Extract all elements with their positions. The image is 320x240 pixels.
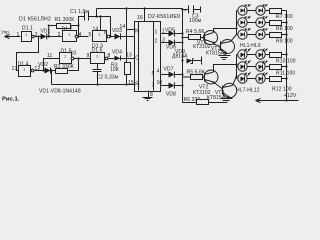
svg-text:100м: 100м — [189, 18, 202, 24]
diode VD6 — [166, 40, 176, 51]
wire D2 pin16 — [144, 9, 146, 22]
resistor R3 — [110, 62, 131, 74]
svg-text:13: 13 — [12, 66, 18, 72]
node rail R3 — [125, 7, 127, 9]
capacitor C1 — [70, 9, 89, 20]
svg-text:C2 0,33м: C2 0,33м — [97, 74, 119, 80]
LED HL11 — [237, 73, 251, 84]
wire — [266, 22, 270, 24]
wire — [175, 74, 183, 76]
svg-text:4: 4 — [157, 69, 160, 75]
inverter D1.4 — [18, 62, 34, 77]
diode VD7 — [164, 67, 175, 78]
diode VD2 — [38, 62, 51, 73]
svg-text:R8 100: R8 100 — [276, 26, 293, 32]
wire — [248, 78, 256, 80]
wire — [248, 22, 256, 24]
LED HL2 — [256, 5, 268, 16]
svg-text:R10 100: R10 100 — [276, 58, 296, 64]
resistor R6 — [183, 97, 225, 105]
node — [95, 15, 97, 17]
inverter D1.3 — [92, 31, 110, 50]
wire output row2 — [161, 42, 169, 44]
wire — [248, 10, 256, 12]
wire — [282, 78, 287, 80]
transistor VT2 — [204, 65, 237, 90]
svg-text:КТ815А: КТ815А — [207, 95, 226, 101]
LED HL12 — [256, 73, 268, 84]
svg-text:10: 10 — [71, 51, 77, 57]
svg-text:C1 1,0м: C1 1,0м — [70, 9, 89, 15]
wire +V vertical bus — [182, 9, 184, 103]
svg-text:15: 15 — [128, 80, 134, 86]
svg-text:Рис.1.: Рис.1. — [2, 96, 20, 102]
transistor VT3 — [221, 35, 237, 56]
ground (VT3 emitter) — [219, 56, 231, 60]
wire — [266, 10, 270, 12]
svg-text:VD4: VD4 — [112, 50, 122, 56]
node — [285, 65, 287, 67]
node — [181, 73, 183, 75]
node B (VD1 cathode / R1 tap) — [48, 35, 50, 37]
svg-text:2: 2 — [155, 39, 158, 45]
resistor R7 — [270, 9, 293, 21]
svg-text:D1.1: D1.1 — [22, 26, 33, 32]
svg-text:Упр.: Упр. — [1, 30, 10, 35]
svg-text:VD8: VD8 — [166, 92, 176, 98]
wire R1 tap vertical — [49, 26, 57, 37]
wire R3 bottom — [126, 75, 128, 85]
resistor R10 — [270, 53, 296, 65]
svg-text:10К: 10К — [110, 67, 119, 73]
wire +12V right bus — [286, 11, 288, 101]
svg-text:14: 14 — [120, 24, 126, 30]
pin 8 wire and label — [148, 91, 150, 98]
wire — [266, 78, 270, 80]
svg-text:HL7-HL12: HL7-HL12 — [236, 88, 260, 94]
inverter D1.1 — [22, 26, 35, 42]
node — [285, 33, 287, 35]
wire — [79, 36, 89, 38]
wire — [282, 66, 287, 68]
LED bus left top group — [236, 11, 238, 35]
svg-text:R9 100: R9 100 — [276, 38, 293, 44]
resistor R11 — [270, 65, 296, 77]
svg-text:VD1-VD8-1N4148: VD1-VD8-1N4148 — [39, 89, 81, 95]
node — [99, 15, 101, 17]
inverter D1.5 — [60, 49, 74, 64]
wire — [266, 54, 270, 56]
svg-text:9: 9 — [87, 53, 90, 59]
inverter D1.2 — [62, 27, 78, 42]
LED HL6 — [256, 29, 268, 40]
node E (osc junction) — [77, 57, 79, 59]
wire — [266, 34, 270, 36]
node — [181, 84, 183, 86]
node R1-C1 — [77, 24, 79, 26]
inverter D1.6 — [91, 48, 108, 64]
node VT1 collector to LED bus — [235, 27, 237, 29]
svg-text:C: C — [135, 55, 139, 61]
svg-text:HL1-HL6: HL1-HL6 — [240, 43, 261, 49]
svg-text:1: 1 — [155, 30, 158, 36]
svg-text:Д814А: Д814А — [172, 54, 188, 60]
wire oscillator enable staircase — [17, 37, 39, 71]
LED HL9 — [237, 61, 251, 72]
resistor R9 — [270, 33, 293, 45]
IC D2 box — [135, 22, 161, 92]
svg-text:8: 8 — [108, 53, 111, 59]
diode VD4 — [112, 50, 122, 61]
resistor R2 — [54, 64, 74, 73]
node VT4 collector — [235, 75, 237, 77]
LED HL10 — [256, 61, 268, 72]
svg-text:11: 11 — [47, 53, 53, 59]
transistor VT4 — [222, 77, 236, 99]
wire to loop — [51, 71, 56, 85]
wire — [108, 58, 115, 60]
node C (D1.2 output junction) — [77, 35, 79, 37]
zener VD9 — [172, 49, 202, 65]
resistor R5 — [181, 70, 204, 80]
wire — [282, 34, 287, 36]
LED HL4 — [256, 17, 268, 28]
transistor VT1 — [204, 29, 237, 47]
LED HL7 — [237, 49, 251, 60]
diode VD8 — [166, 83, 176, 98]
node — [143, 7, 145, 9]
wire D1 pin14 supply — [100, 17, 102, 31]
svg-text:D1 К561ЛН2: D1 К561ЛН2 — [19, 16, 51, 22]
resistor R4 — [181, 29, 204, 40]
svg-text:6: 6 — [104, 30, 107, 36]
resistor R12 — [270, 77, 292, 93]
wire feedback vertical — [110, 17, 112, 37]
wire — [110, 36, 115, 38]
wire — [74, 58, 91, 60]
node C2 bottom — [96, 83, 98, 85]
LED HL3 — [237, 17, 251, 28]
svg-text:N: N — [135, 29, 139, 35]
wire R2 right — [69, 59, 79, 71]
svg-text:5: 5 — [152, 71, 155, 77]
capacitor C2 — [93, 64, 119, 85]
wire — [266, 66, 270, 68]
svg-text:7: 7 — [152, 82, 155, 88]
LED bus left bottom group — [236, 55, 238, 79]
svg-text:R11 100: R11 100 — [276, 70, 295, 76]
diode VD5 — [165, 27, 175, 36]
wire — [282, 54, 287, 56]
node — [285, 77, 287, 79]
wire — [175, 85, 183, 87]
resistor R1 — [55, 17, 75, 28]
wire to top rail — [96, 9, 98, 17]
wire — [47, 36, 63, 38]
svg-text:D2-К561ИЕ9: D2-К561ИЕ9 — [148, 14, 180, 20]
ground (VT4 emitter) — [221, 99, 233, 103]
svg-text:+12V: +12V — [284, 93, 297, 99]
wire — [248, 66, 256, 68]
svg-text:R: R — [135, 82, 139, 88]
svg-text:5: 5 — [89, 32, 92, 38]
wire to D2 — [121, 36, 135, 38]
wire R3 top from rail — [126, 9, 128, 63]
wire — [282, 10, 287, 12]
wire — [175, 42, 183, 44]
svg-text:1: 1 — [17, 32, 20, 38]
wire output row1 — [161, 33, 169, 35]
svg-text:+: + — [184, 8, 187, 13]
svg-text:3: 3 — [58, 32, 61, 38]
wire oscillator loop y84.5 — [52, 84, 135, 86]
wire output row4 — [161, 85, 169, 87]
svg-text:R7 100: R7 100 — [276, 14, 293, 20]
diode VD3 — [112, 28, 122, 40]
svg-text:R12 100: R12 100 — [272, 86, 292, 92]
wire D1.5 input branch — [44, 59, 60, 71]
node VD2 anode — [42, 69, 44, 71]
LED HL5 — [237, 29, 251, 40]
node — [181, 32, 183, 34]
svg-text:16: 16 — [137, 15, 143, 21]
wire — [248, 34, 256, 36]
svg-text:R1 300К: R1 300К — [55, 17, 75, 23]
svg-text:КТ3102: КТ3102 — [193, 44, 211, 50]
wire D2 pin14 from rail — [127, 29, 135, 31]
wire R1 right — [71, 25, 79, 27]
node VT2 collector — [235, 63, 237, 65]
node — [181, 41, 183, 43]
resistor R8 — [270, 21, 293, 33]
node VD2 cathode — [50, 69, 52, 71]
node A (D1.1 output junction) — [37, 35, 39, 37]
LED HL1 — [237, 5, 251, 16]
wire C1 branch vertical — [79, 17, 85, 37]
node — [285, 53, 287, 55]
node D (C1 feedback junction) — [109, 35, 111, 37]
node — [285, 21, 287, 23]
wire C1 right — [89, 16, 111, 18]
LED HL8 — [256, 49, 268, 60]
wire — [34, 36, 40, 38]
capacitor C3 — [181, 6, 201, 25]
ground (D2 pin 8) — [143, 98, 153, 101]
wire — [248, 54, 256, 56]
node R3 loop — [125, 83, 127, 85]
svg-text:VD2: VD2 — [38, 62, 48, 68]
input terminal Упр. — [1, 30, 21, 39]
wire top rail — [97, 8, 183, 10]
wire — [282, 22, 287, 24]
+12V supply terminal — [256, 93, 299, 102]
diode VD1 — [41, 28, 51, 39]
node R1 left — [48, 25, 50, 27]
wire — [35, 70, 45, 72]
wire to D2 pin C — [121, 58, 135, 60]
wire output row3 — [161, 74, 169, 76]
wire — [175, 33, 183, 35]
